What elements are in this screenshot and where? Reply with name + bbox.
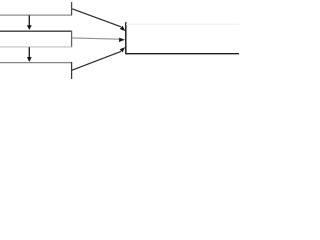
edge D2 (from B2 to join bar) [72,38,120,39]
box B3 (bottom-left, cropped) top edge [0,62,72,64]
faint line (top right) [126,23,239,25]
arrow A2 (B2 to B3) shaft [28,47,30,57]
edge D3 arrowhead [120,47,126,52]
edge D1 arrowhead [120,26,126,31]
join bar [125,22,127,54]
box B3 right edge [71,62,73,79]
box B1 (top-left, cropped) bottom edge [0,14,72,16]
box B2 (middle-left, cropped) top edge [0,30,72,32]
arrow A1 (B1 to B2) shaft [28,15,30,25]
box B2 right edge [71,31,73,48]
edge D1 (from B1 to join bar) [72,9,121,27]
arrow A2 head [27,57,32,62]
arrow A1 head [27,25,32,30]
edge D3 (from B3 to join bar) [72,51,121,70]
box B2 bottom edge [0,46,72,48]
edge D2 arrowhead [119,38,125,42]
box B1 right edge [71,2,73,15]
output line [126,53,239,55]
background [0,0,239,79]
